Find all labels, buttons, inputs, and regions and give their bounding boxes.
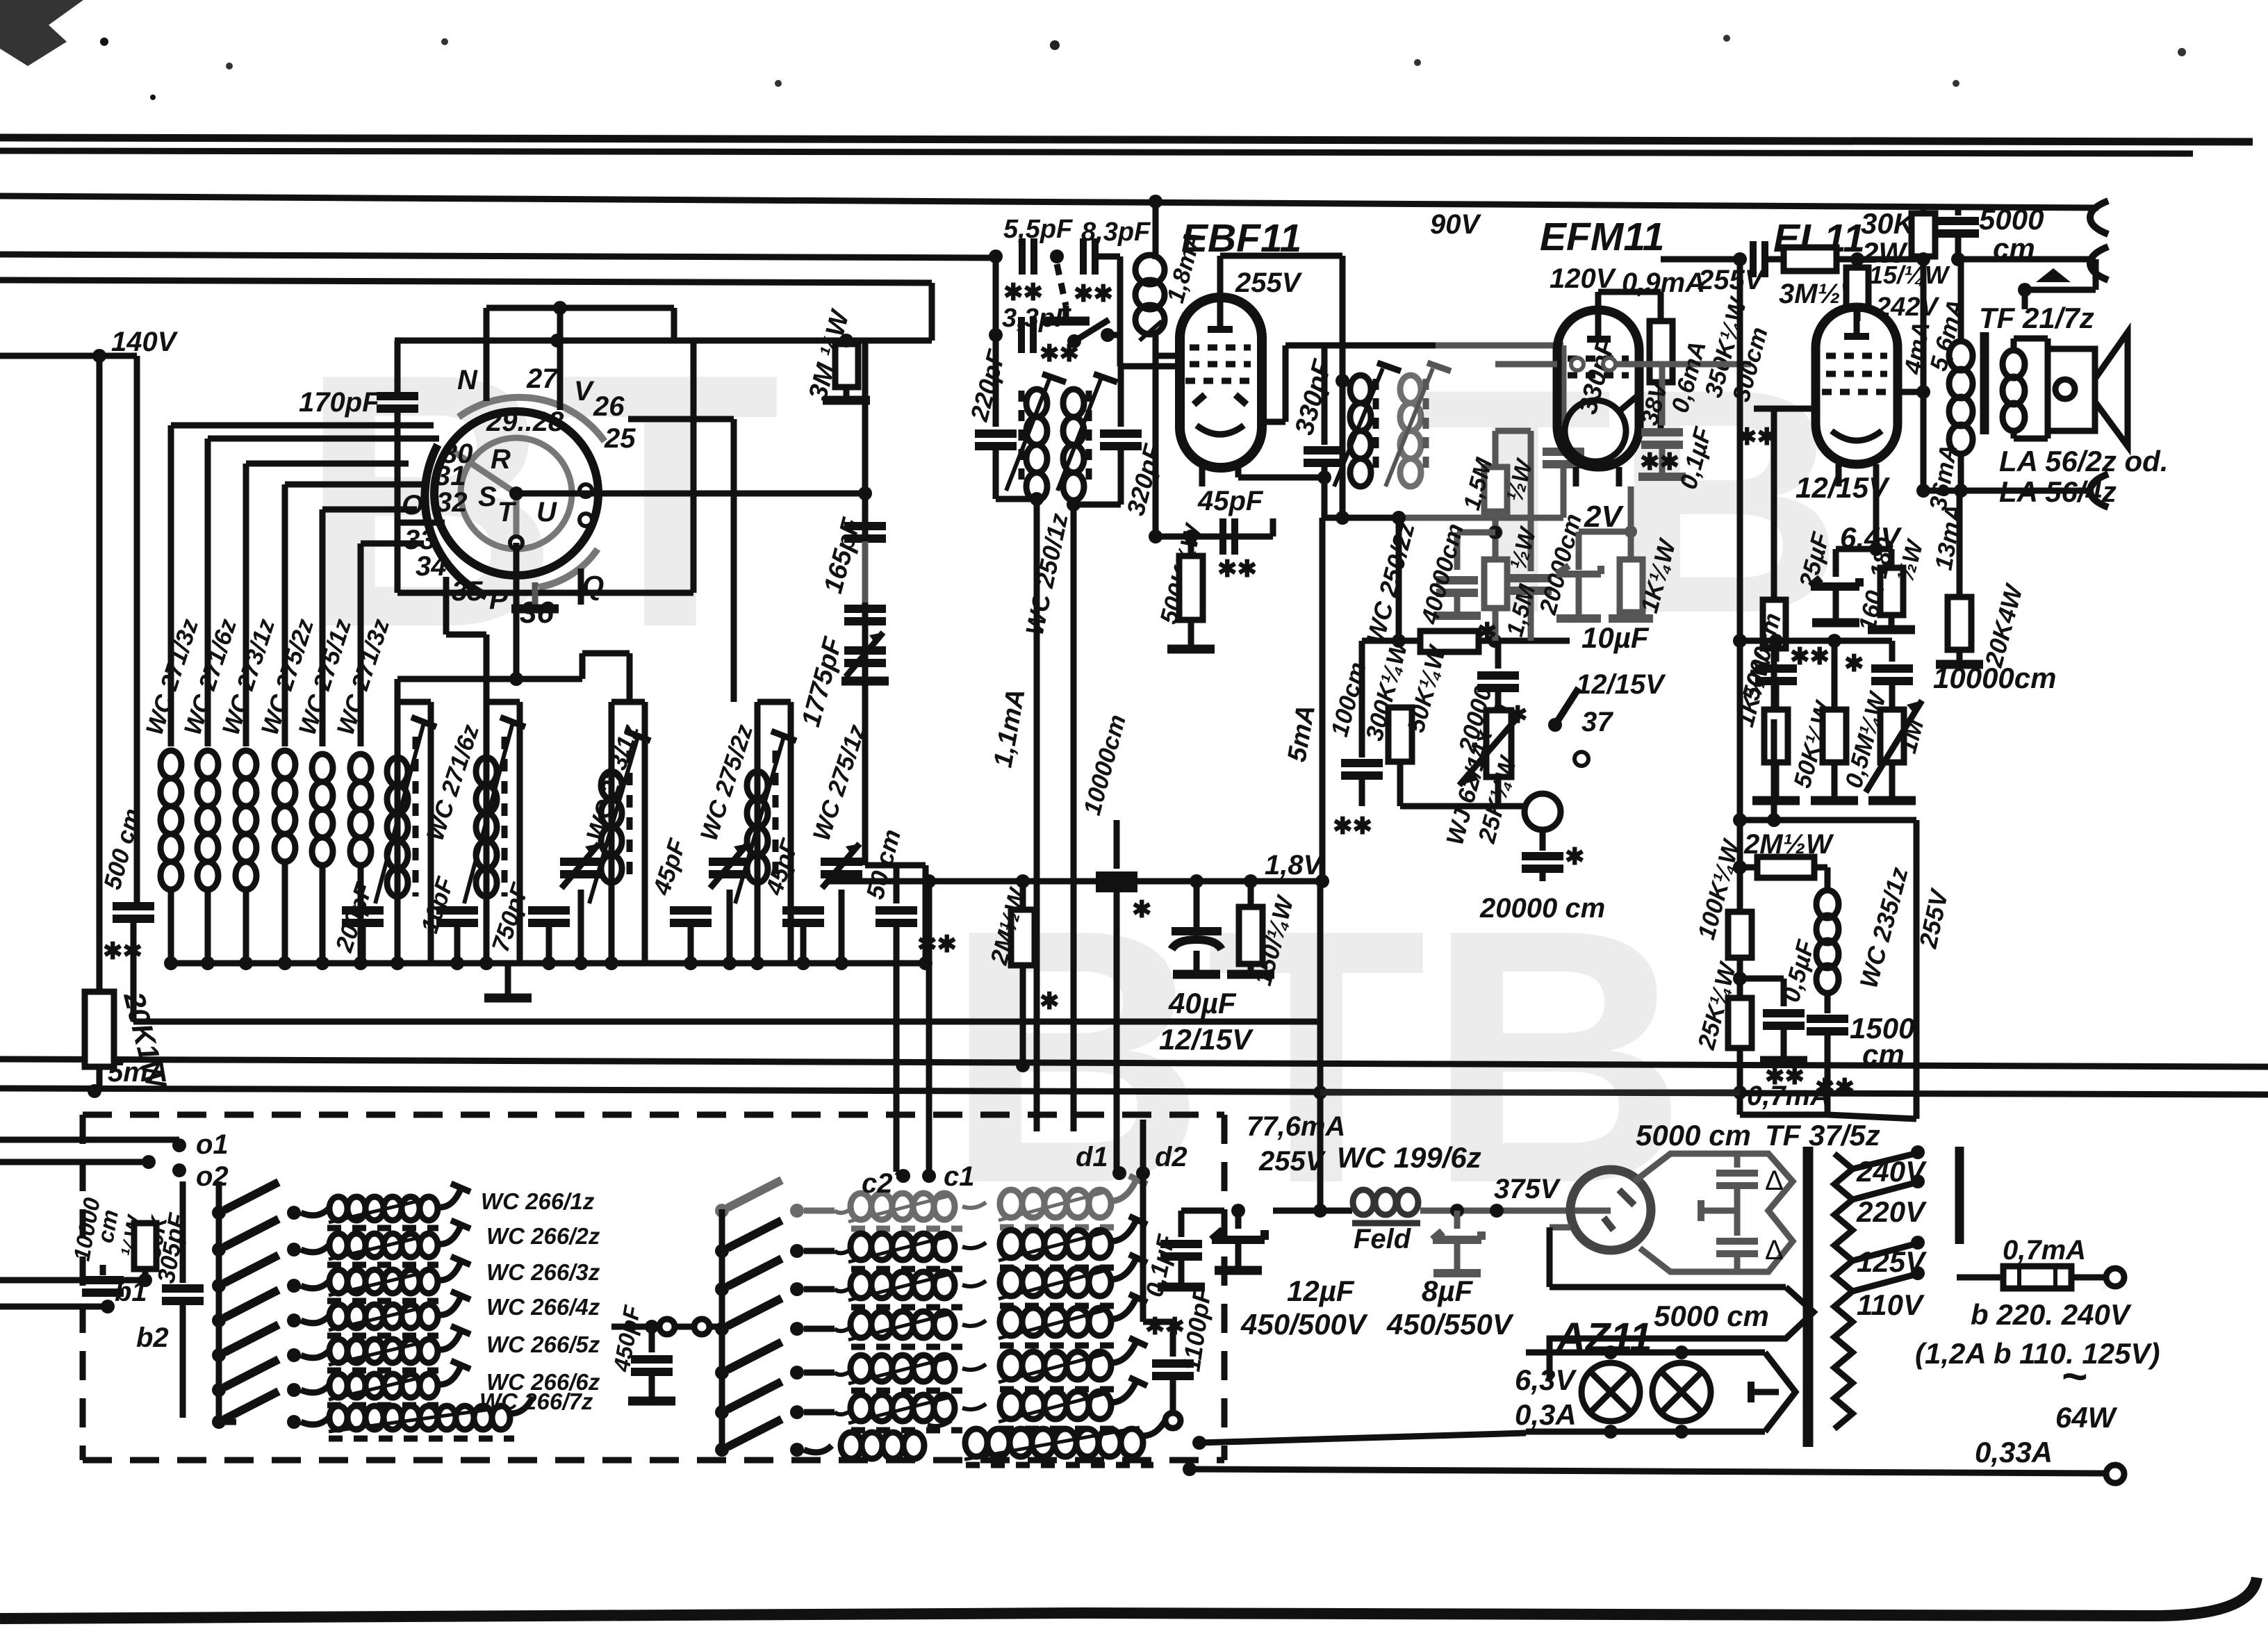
svg-text:✱✱: ✱✱	[1145, 1313, 1185, 1340]
capacitor 50cm	[894, 865, 900, 903]
switch 37	[1555, 688, 1579, 725]
rotor arm	[452, 450, 516, 493]
svg-text:10µF: 10µF	[1581, 621, 1650, 654]
resistor 30K 2W vertical	[1921, 208, 1927, 213]
svg-text:12/15V: 12/15V	[1159, 1023, 1254, 1056]
adjustable coil unit 2 (WC 273/1z)	[464, 702, 525, 963]
wire: 90V anode bus	[0, 196, 2098, 208]
resistor 300K 1/4W horizontal	[1362, 638, 1570, 644]
top cap feed 120V	[1595, 292, 1602, 339]
svg-text:b 220. 240V: b 220. 240V	[1971, 1298, 2132, 1331]
AZ11 anode return box	[1550, 1225, 1570, 1231]
svg-text:5000 cm: 5000 cm	[1654, 1300, 1769, 1332]
svg-text:WC 266/2z: WC 266/2z	[486, 1223, 600, 1249]
svg-text:30K: 30K	[1861, 207, 1916, 240]
resistor 150/quarterW	[1248, 881, 1254, 907]
wire row 2	[993, 256, 999, 366]
svg-text:✱✱: ✱✱	[1737, 424, 1777, 450]
svg-text:140V: 140V	[111, 327, 179, 357]
long drops to band unit d1/c1	[1034, 499, 1040, 1131]
potentiometer WJ 62/14x	[1486, 710, 1511, 777]
svg-text:N: N	[457, 365, 478, 395]
svg-text:✱✱: ✱✱	[1074, 281, 1113, 307]
0.5M chain	[1832, 641, 1838, 710]
coupling line y=373	[1661, 256, 1740, 263]
svg-text:2V: 2V	[1584, 500, 1624, 534]
capacitor 10000cm	[1114, 820, 1120, 869]
grids dashed	[1190, 345, 1251, 351]
svg-text:5000: 5000	[1979, 203, 2044, 236]
resistor 15/quarter W	[1855, 259, 1861, 268]
heater return wire	[1199, 1433, 1526, 1443]
wire: second bus	[0, 254, 998, 258]
wire	[205, 439, 211, 746]
svg-text:✱: ✱	[1132, 897, 1152, 923]
svg-text:O: O	[402, 490, 423, 521]
primary	[1958, 259, 1964, 343]
node: bus2 end	[989, 249, 1003, 263]
wire: AVC line 2 (y~1569)	[0, 1088, 2268, 1095]
gray middle resistors 1.5M	[1433, 431, 1552, 641]
wire: third bus	[0, 280, 932, 283]
svg-text:✱✱: ✱✱	[1217, 556, 1257, 582]
speaker coil box	[2048, 349, 2095, 431]
svg-text:✱✱: ✱✱	[1790, 644, 1830, 670]
coil 1.8mA (RF choke)	[1153, 202, 1159, 259]
svg-text:cm: cm	[1862, 1038, 1905, 1071]
anode bar	[1208, 326, 1233, 333]
coil WC 266/2z row	[212, 1219, 470, 1265]
1K resistor	[1628, 532, 1634, 559]
wires below switch	[513, 543, 520, 679]
cathode	[1197, 425, 1244, 434]
0.1uF input cap	[1273, 1208, 1320, 1214]
svg-text:10000cm: 10000cm	[1933, 662, 2057, 694]
svg-text:WC 266/3z: WC 266/3z	[486, 1259, 600, 1285]
svg-text:0,3A: 0,3A	[1515, 1398, 1577, 1431]
rows	[715, 1176, 1147, 1229]
secondary zigzag	[1834, 1154, 1852, 1429]
svg-text:✱: ✱	[1039, 988, 1060, 1015]
coil WC 235/1z	[1816, 890, 1839, 993]
secondary coil (grey)	[1400, 375, 1421, 486]
svg-text:170pF: 170pF	[299, 387, 380, 418]
svg-text:c1: c1	[944, 1161, 975, 1192]
svg-text:b2: b2	[136, 1323, 169, 1353]
1K 1/4W on EL11 grid line	[1771, 409, 1777, 600]
grid chain of EFM11	[1396, 518, 1402, 641]
svg-text:✱✱: ✱✱	[1039, 341, 1079, 367]
bottom	[1324, 515, 1399, 521]
coil WC 266/7z row (long)	[212, 1415, 226, 1429]
adjustable coil unit 4 (WC 275/1z)	[735, 702, 796, 963]
pins	[1573, 467, 1579, 486]
1M pot chain with cap	[1889, 641, 1896, 662]
wire loop A	[486, 305, 674, 311]
coil WC 266/6z row	[212, 1359, 470, 1405]
diode plates	[1194, 395, 1205, 404]
svg-text:Q: Q	[582, 571, 604, 601]
wire: 25-pin box	[628, 416, 734, 423]
gray section: 38V node, 0.1uF, 2V, 1K	[1495, 321, 1751, 619]
wire 1.8V	[828, 878, 1320, 885]
coil WC 266/4z row	[212, 1290, 470, 1336]
capacitor 1500cm	[1807, 1019, 1848, 1031]
svg-text:450/500V: 450/500V	[1240, 1308, 1368, 1341]
watermark	[299, 299, 1843, 1259]
connect 2M top to 1K chain	[1771, 719, 1777, 820]
capacitor 330pF right (grey)	[1561, 345, 1567, 445]
speaker return rail	[1923, 488, 2090, 494]
wire: second vertical x=197	[134, 356, 140, 902]
svg-text:15/¼W: 15/¼W	[1869, 261, 1950, 289]
svg-text:240V: 240V	[1856, 1155, 1927, 1188]
capacitor 320pF	[1118, 366, 1124, 427]
svg-text:64W: 64W	[2055, 1401, 2118, 1434]
svg-text:LA 56/2z od.: LA 56/2z od.	[1999, 445, 2169, 477]
svg-text:U: U	[536, 497, 557, 527]
wire: AVC line 1 (y~1526)	[0, 1059, 2268, 1067]
dashed enclosure	[83, 1112, 1224, 1118]
svg-text:Feld: Feld	[1354, 1224, 1412, 1254]
jack top	[2090, 201, 2108, 234]
grids	[1568, 356, 1629, 362]
secondary coil	[1063, 389, 1084, 500]
25K 1/4W	[1728, 998, 1752, 1048]
svg-text:375V: 375V	[1494, 1174, 1561, 1204]
20000cm gray cap	[1528, 431, 1534, 571]
svg-text:8µF: 8µF	[1422, 1275, 1474, 1307]
5000cm + 50K chain	[1773, 641, 1780, 662]
255V top cap feed	[1217, 256, 1224, 306]
volume pot bottom circle	[1525, 794, 1561, 830]
box right edge + bottom	[1914, 820, 1920, 1119]
bottom bus of tuned bank	[171, 960, 926, 967]
capacitor 200pF	[360, 924, 366, 963]
trimmer cap	[578, 890, 584, 963]
svg-text:1,8V: 1,8V	[1265, 850, 1324, 881]
wire: centre line to the right	[516, 491, 865, 497]
fuse + mains	[1959, 1174, 1960, 1175]
middle bank bus	[719, 1209, 725, 1450]
capacitor 500cm	[113, 906, 154, 919]
lamp 1	[1581, 1363, 1640, 1421]
svg-text:125V: 125V	[1857, 1245, 1927, 1278]
capacitor 20000 cm (black)	[1495, 641, 1502, 669]
switch rotor circle	[434, 411, 598, 575]
ground of bus	[505, 963, 511, 994]
switch bus	[216, 1181, 222, 1422]
capacitor 25uF electrolytic	[1833, 549, 1839, 577]
svg-text:✱: ✱	[1565, 844, 1585, 870]
svg-text:(1,2A b 110. 125V): (1,2A b 110. 125V)	[1915, 1337, 2160, 1370]
capacitor 5.5pF	[1022, 238, 1034, 275]
svg-text:6,3V: 6,3V	[1515, 1364, 1577, 1396]
capacitor 5000cm	[1955, 204, 1962, 215]
12uF cap	[1231, 1204, 1245, 1218]
svg-text:R: R	[491, 444, 511, 475]
primary coil	[1350, 375, 1371, 486]
svg-text:5000 cm: 5000 cm	[1636, 1119, 1751, 1152]
5mA feed vertical	[1320, 518, 1326, 881]
capacitor 100cm	[1359, 641, 1365, 758]
transformer bottom wires	[996, 496, 1037, 502]
svg-text:V: V	[574, 376, 595, 407]
0.5uF cap	[1740, 976, 1784, 982]
right side of 45pF wire rises to tube pin	[1270, 518, 1276, 537]
capacitor 8.3pF	[1083, 238, 1095, 275]
svg-text:EFM11: EFM11	[1540, 215, 1665, 259]
svg-text:WC 266/1z: WC 266/1z	[481, 1188, 595, 1214]
coil L2 WC271/6z	[197, 751, 218, 890]
coil WC 266/1z row	[212, 1182, 470, 1228]
wire	[358, 543, 364, 746]
diode wire out right	[1238, 475, 1324, 481]
capacitor 10pF	[454, 924, 461, 963]
wire	[243, 464, 249, 746]
b1 b2	[0, 1277, 145, 1284]
capacitor 220pF	[993, 366, 999, 427]
HV winding hexagon	[1634, 1154, 1793, 1272]
2V box	[1628, 486, 1634, 532]
svg-text:37: 37	[1581, 707, 1613, 737]
capacitor 3.3pF	[1021, 317, 1033, 353]
svg-text:45pF: 45pF	[1197, 486, 1264, 516]
wire loop B	[395, 338, 932, 344]
coil L1 WC271/3z	[161, 751, 181, 890]
wire: 140V feed	[0, 353, 137, 359]
primary coil	[1026, 389, 1047, 500]
transformer core	[1803, 1147, 1814, 1447]
svg-text:32: 32	[436, 487, 468, 518]
svg-text:220V: 220V	[1856, 1195, 1927, 1228]
svg-text:29..28: 29..28	[486, 407, 564, 437]
svg-text:90V: 90V	[1430, 209, 1481, 240]
capacitor 45pF c	[800, 924, 807, 963]
wire Q bottom	[397, 590, 693, 596]
wire to detector line	[133, 1019, 1320, 1025]
resistor 20K1W	[85, 992, 114, 1067]
svg-text:25: 25	[604, 423, 636, 454]
taps	[1852, 1154, 1915, 1169]
svg-text:WC 266/7z: WC 266/7z	[479, 1389, 593, 1414]
svg-text:b1: b1	[115, 1277, 147, 1307]
top border double rule	[0, 138, 2253, 142]
svg-text:0,7mA: 0,7mA	[2003, 1235, 2086, 1266]
resistor 160.180 1/2W	[1889, 549, 1895, 568]
2V electrolytic	[1556, 566, 1601, 574]
svg-text:20000 cm: 20000 cm	[1479, 893, 1605, 924]
wire from jack top to top border	[2043, 207, 2057, 208]
svg-text:✱✱: ✱✱	[1003, 279, 1043, 306]
trimmer cap b	[727, 890, 733, 963]
svg-text:P: P	[489, 584, 508, 615]
svg-text:✱: ✱	[1844, 650, 1864, 677]
jack 2 with switch	[2090, 247, 2108, 280]
secondary	[2003, 350, 2025, 378]
svg-text:WC 266/4z: WC 266/4z	[486, 1294, 600, 1320]
svg-text:40µF: 40µF	[1168, 987, 1237, 1020]
coil L5 WC275/1z	[312, 754, 333, 865]
svg-text:450/550V: 450/550V	[1386, 1308, 1514, 1341]
wire continues to jacks	[1958, 256, 2096, 263]
svg-text:Δ: Δ	[1765, 1235, 1784, 1266]
anode resistor 350K	[1658, 318, 1664, 327]
speaker cone	[2095, 332, 2128, 446]
capacitor 40uF electrolytic	[1194, 881, 1200, 927]
core	[1980, 332, 1989, 434]
trimmer cap d	[839, 890, 845, 963]
plate wire to box	[1260, 419, 1285, 425]
coil WC 266/5z row	[212, 1325, 470, 1370]
0.1uF cap	[1659, 364, 1666, 425]
svg-text:✱✱: ✱✱	[1333, 813, 1372, 840]
grid wire in	[1121, 363, 1181, 370]
svg-text:c2: c2	[862, 1168, 893, 1199]
svg-text:o2: o2	[196, 1161, 229, 1192]
tube envelope	[1557, 310, 1639, 467]
switch centre	[509, 486, 523, 500]
gnd stub from switch T pin	[532, 582, 539, 606]
o1 o2 terminals	[0, 1137, 179, 1143]
c/d terminals	[896, 1169, 910, 1183]
adjustable coil unit 1 (WC 271/6z)	[375, 702, 436, 963]
svg-text:d1: d1	[1076, 1142, 1108, 1172]
20K4W bleeder	[1957, 491, 1963, 597]
svg-text:255V: 255V	[1258, 1146, 1326, 1177]
svg-text:0,7mA: 0,7mA	[1747, 1081, 1830, 1111]
svg-text:T: T	[498, 497, 517, 527]
tube pins	[1199, 467, 1206, 486]
P/Q box below switch	[443, 577, 450, 635]
coil WC 266/3z row	[212, 1255, 470, 1301]
svg-text:27: 27	[526, 363, 559, 394]
svg-text:77,6mA: 77,6mA	[1247, 1111, 1345, 1142]
wire bus3 end drop	[929, 283, 935, 341]
svg-text:S: S	[478, 482, 497, 512]
tube EBF11 envelope	[1180, 297, 1262, 468]
40000cm cap	[1457, 530, 1495, 536]
svg-text:✱✱: ✱✱	[103, 938, 142, 965]
svg-text:TF 37/5z: TF 37/5z	[1765, 1119, 1880, 1152]
capacitor 45pF a	[688, 924, 694, 963]
svg-text:255V: 255V	[1235, 268, 1303, 298]
svg-text:WC 199/6z: WC 199/6z	[1337, 1141, 1481, 1174]
coil L3 WC273/1z	[236, 751, 256, 890]
bottom border thick rule	[0, 1578, 2257, 1619]
switch arm 3.3pF	[1067, 334, 1081, 348]
rectifier AZ11	[1570, 1170, 1651, 1250]
svg-text:26: 26	[593, 391, 625, 422]
switch rotor dashes to ground	[1057, 264, 1066, 306]
resistor 3M 1/2W horizontal	[1784, 247, 1836, 271]
cap 20000cm at pot bottom	[1540, 830, 1546, 851]
capacitor 330pF left	[1322, 345, 1328, 445]
adjustable coil unit 3 (WC 275/2z)	[589, 702, 650, 963]
svg-text:3,3pF: 3,3pF	[1002, 304, 1072, 333]
svg-text:34: 34	[416, 551, 447, 582]
lamp 2	[1652, 1363, 1711, 1421]
svg-text:TF 21/7z: TF 21/7z	[1979, 302, 2094, 334]
svg-text:12/15V: 12/15V	[1576, 669, 1666, 700]
wire	[320, 509, 326, 746]
plate wire right	[1898, 389, 1923, 395]
wire	[168, 425, 174, 746]
grid wire into EL11	[1740, 472, 1816, 473]
8uF cap	[1433, 1211, 1481, 1273]
wire y=922 network	[1740, 638, 1892, 644]
scan blotch top-left corner	[0, 0, 83, 66]
EL11 tube	[1816, 307, 1898, 464]
svg-text:110V: 110V	[1857, 1288, 1925, 1321]
right vertical of bank	[923, 865, 929, 963]
capacitor 750pF	[546, 924, 552, 963]
wire	[282, 484, 288, 746]
svg-text:12µF: 12µF	[1287, 1275, 1355, 1307]
100K 1/4W	[1739, 867, 1741, 912]
wire: 140V drop x=143	[97, 356, 103, 992]
right vertical feed bar	[1955, 1147, 1964, 1244]
outer contact arc	[459, 398, 605, 441]
svg-text:Δ: Δ	[1765, 1165, 1784, 1196]
coil L6 WC271/3z	[350, 754, 371, 865]
svg-text:0,33A: 0,33A	[1975, 1436, 2053, 1468]
svg-text:✱: ✱	[1477, 619, 1497, 645]
coil L4 WC275/2z	[274, 751, 295, 862]
svg-text:5,5pF: 5,5pF	[1003, 215, 1074, 244]
resistor 50K 1/4W	[1399, 641, 1401, 707]
svg-text:~: ~	[2061, 1351, 2087, 1401]
eye target	[1565, 400, 1626, 461]
svg-text:d2: d2	[1155, 1142, 1188, 1172]
last long row	[715, 1443, 729, 1457]
wire from 1900 to box	[1320, 1090, 1740, 1096]
svg-text:o1: o1	[196, 1129, 229, 1160]
svg-text:✱✱: ✱✱	[1640, 449, 1679, 475]
svg-text:WC 266/5z: WC 266/5z	[486, 1332, 600, 1357]
